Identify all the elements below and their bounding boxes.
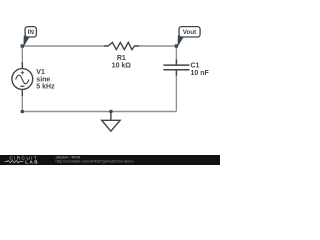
voltage source V1 [12, 62, 33, 96]
svg-text:10 nF: 10 nF [191, 70, 210, 77]
junction dot ground net at V1 bottom [21, 110, 25, 114]
svg-text:Vout: Vout [183, 29, 197, 36]
wire top right segment [139, 45, 176, 47]
wire left vertical (V1 bottom to ground net) [21, 94, 23, 112]
svg-text:IN: IN [28, 29, 35, 36]
junction dot ground net at ground stub [109, 110, 113, 114]
node Vout flag [178, 27, 200, 46]
resistor R1 [104, 42, 139, 49]
node Vout junction square [175, 44, 178, 47]
CircuitLab logo resistor zigzag [5, 160, 24, 162]
svg-text:5 kHz: 5 kHz [36, 84, 55, 91]
svg-text:V1: V1 [36, 69, 45, 76]
svg-text:C1: C1 [191, 62, 200, 69]
V1 plus sign [21, 71, 24, 74]
wire bottom horizontal ground net [22, 111, 176, 113]
svg-text:10 kΩ: 10 kΩ [112, 63, 132, 70]
node IN junction square [21, 44, 24, 47]
V1 minus sign [20, 85, 24, 87]
wire right vertical (Vout node to C1 top) [175, 46, 177, 61]
capacitor C1 [163, 60, 189, 76]
node IN flag [24, 27, 36, 46]
svg-text:R1: R1 [117, 55, 126, 62]
footer bar [0, 155, 220, 165]
wire left vertical (IN node to V1 top) [21, 46, 23, 64]
svg-text:LAB: LAB [25, 159, 39, 164]
svg-text:sine: sine [36, 76, 50, 83]
wire top horizontal net IN->R1->Vout [22, 45, 104, 47]
svg-text:http://circuitlab.com/c/b4627g: http://circuitlab.com/c/b4627grmsd2/rms-… [56, 160, 134, 164]
ground [102, 112, 120, 132]
V1 sine symbol [16, 75, 29, 84]
wire right vertical (C1 bottom to ground net) [175, 74, 177, 112]
